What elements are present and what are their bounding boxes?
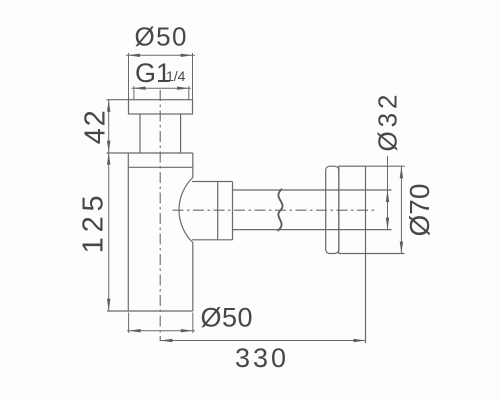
arrow 42 top — [107, 100, 110, 112]
compression nut divider — [217, 182, 219, 240]
body left edge — [127, 153, 129, 311]
body right edge lower — [192, 243, 194, 312]
arrow 125 top — [107, 153, 110, 165]
outlet pipe bottom edge — [233, 229, 392, 231]
dim Ø70: dimension line — [400, 166, 402, 253]
dim G1 1/4: left extension line — [133, 86, 135, 99]
arrow Ø50 bottom left — [129, 329, 141, 332]
outlet pipe top edge — [233, 189, 392, 191]
body bulge arc to outlet — [179, 178, 193, 243]
dim G1 1/4: dimension line — [132, 87, 192, 89]
330 right extension line — [365, 254, 367, 344]
dim G1 1/4: right extension line — [188, 86, 190, 99]
arrow 330 right — [354, 339, 366, 342]
arrow G1 right — [177, 87, 189, 90]
arrow Ø50 top left — [128, 54, 140, 57]
compression nut right edge — [232, 182, 234, 240]
svg-text:Ø50: Ø50 — [135, 22, 187, 52]
arrow Ø32 bottom — [386, 218, 389, 230]
svg-text:1/4: 1/4 — [166, 68, 186, 84]
dim Ø50 bottom: dimension line — [127, 330, 195, 332]
arrow Ø70 top — [400, 166, 403, 178]
svg-text:330: 330 — [235, 343, 286, 373]
flange top extension line — [366, 165, 405, 167]
top flange (tank connector) — [129, 100, 193, 114]
arrow 125 bottom — [107, 299, 110, 311]
svg-text:42: 42 — [80, 110, 112, 144]
dim Ø50 top: dimension line — [126, 54, 195, 56]
arrow Ø50 bottom right — [181, 329, 193, 332]
dim 330: dimension line — [161, 340, 366, 342]
dim Ø50 top: right extension line — [192, 53, 194, 99]
horizontal centerline — [173, 209, 376, 211]
dim Ø50 bottom: right extension line — [192, 313, 194, 334]
compression nut bottom — [192, 239, 233, 241]
arrow 42 bottom — [107, 141, 110, 153]
arrow Ø70 bottom — [400, 242, 403, 254]
svg-text:Ø32: Ø32 — [373, 95, 403, 152]
dim Ø50 bottom: left extension line — [128, 313, 130, 334]
svg-text:Ø70: Ø70 — [404, 184, 435, 237]
threaded neck G1 1/4 — [139, 114, 141, 153]
collar top edge (with left extension tick) — [107, 152, 193, 154]
collar bottom edge — [128, 166, 193, 168]
dim Ø50 top: left extension line — [128, 53, 130, 99]
dim 42/125: shared dimension line — [108, 100, 110, 311]
extension tick flange top left — [107, 99, 129, 101]
body bottom edge (with left extension tick) — [107, 310, 193, 312]
svg-text:125: 125 — [78, 195, 110, 253]
vertical centerline — [159, 90, 161, 341]
body right edge upper — [192, 153, 194, 178]
pipe break symbol — [278, 189, 283, 231]
arrow 330 left — [161, 339, 173, 342]
arrow G1 left — [134, 87, 146, 90]
wall escutcheon plate — [326, 166, 339, 253]
compression nut top — [192, 181, 233, 183]
flange bottom extension line — [366, 253, 405, 255]
dim Ø32: dimension line with leader up to label — [387, 156, 389, 230]
arrow Ø50 top right — [181, 54, 193, 57]
wall flange body — [339, 166, 366, 253]
svg-text:Ø50: Ø50 — [201, 303, 253, 333]
arrow Ø32 top — [386, 190, 389, 202]
